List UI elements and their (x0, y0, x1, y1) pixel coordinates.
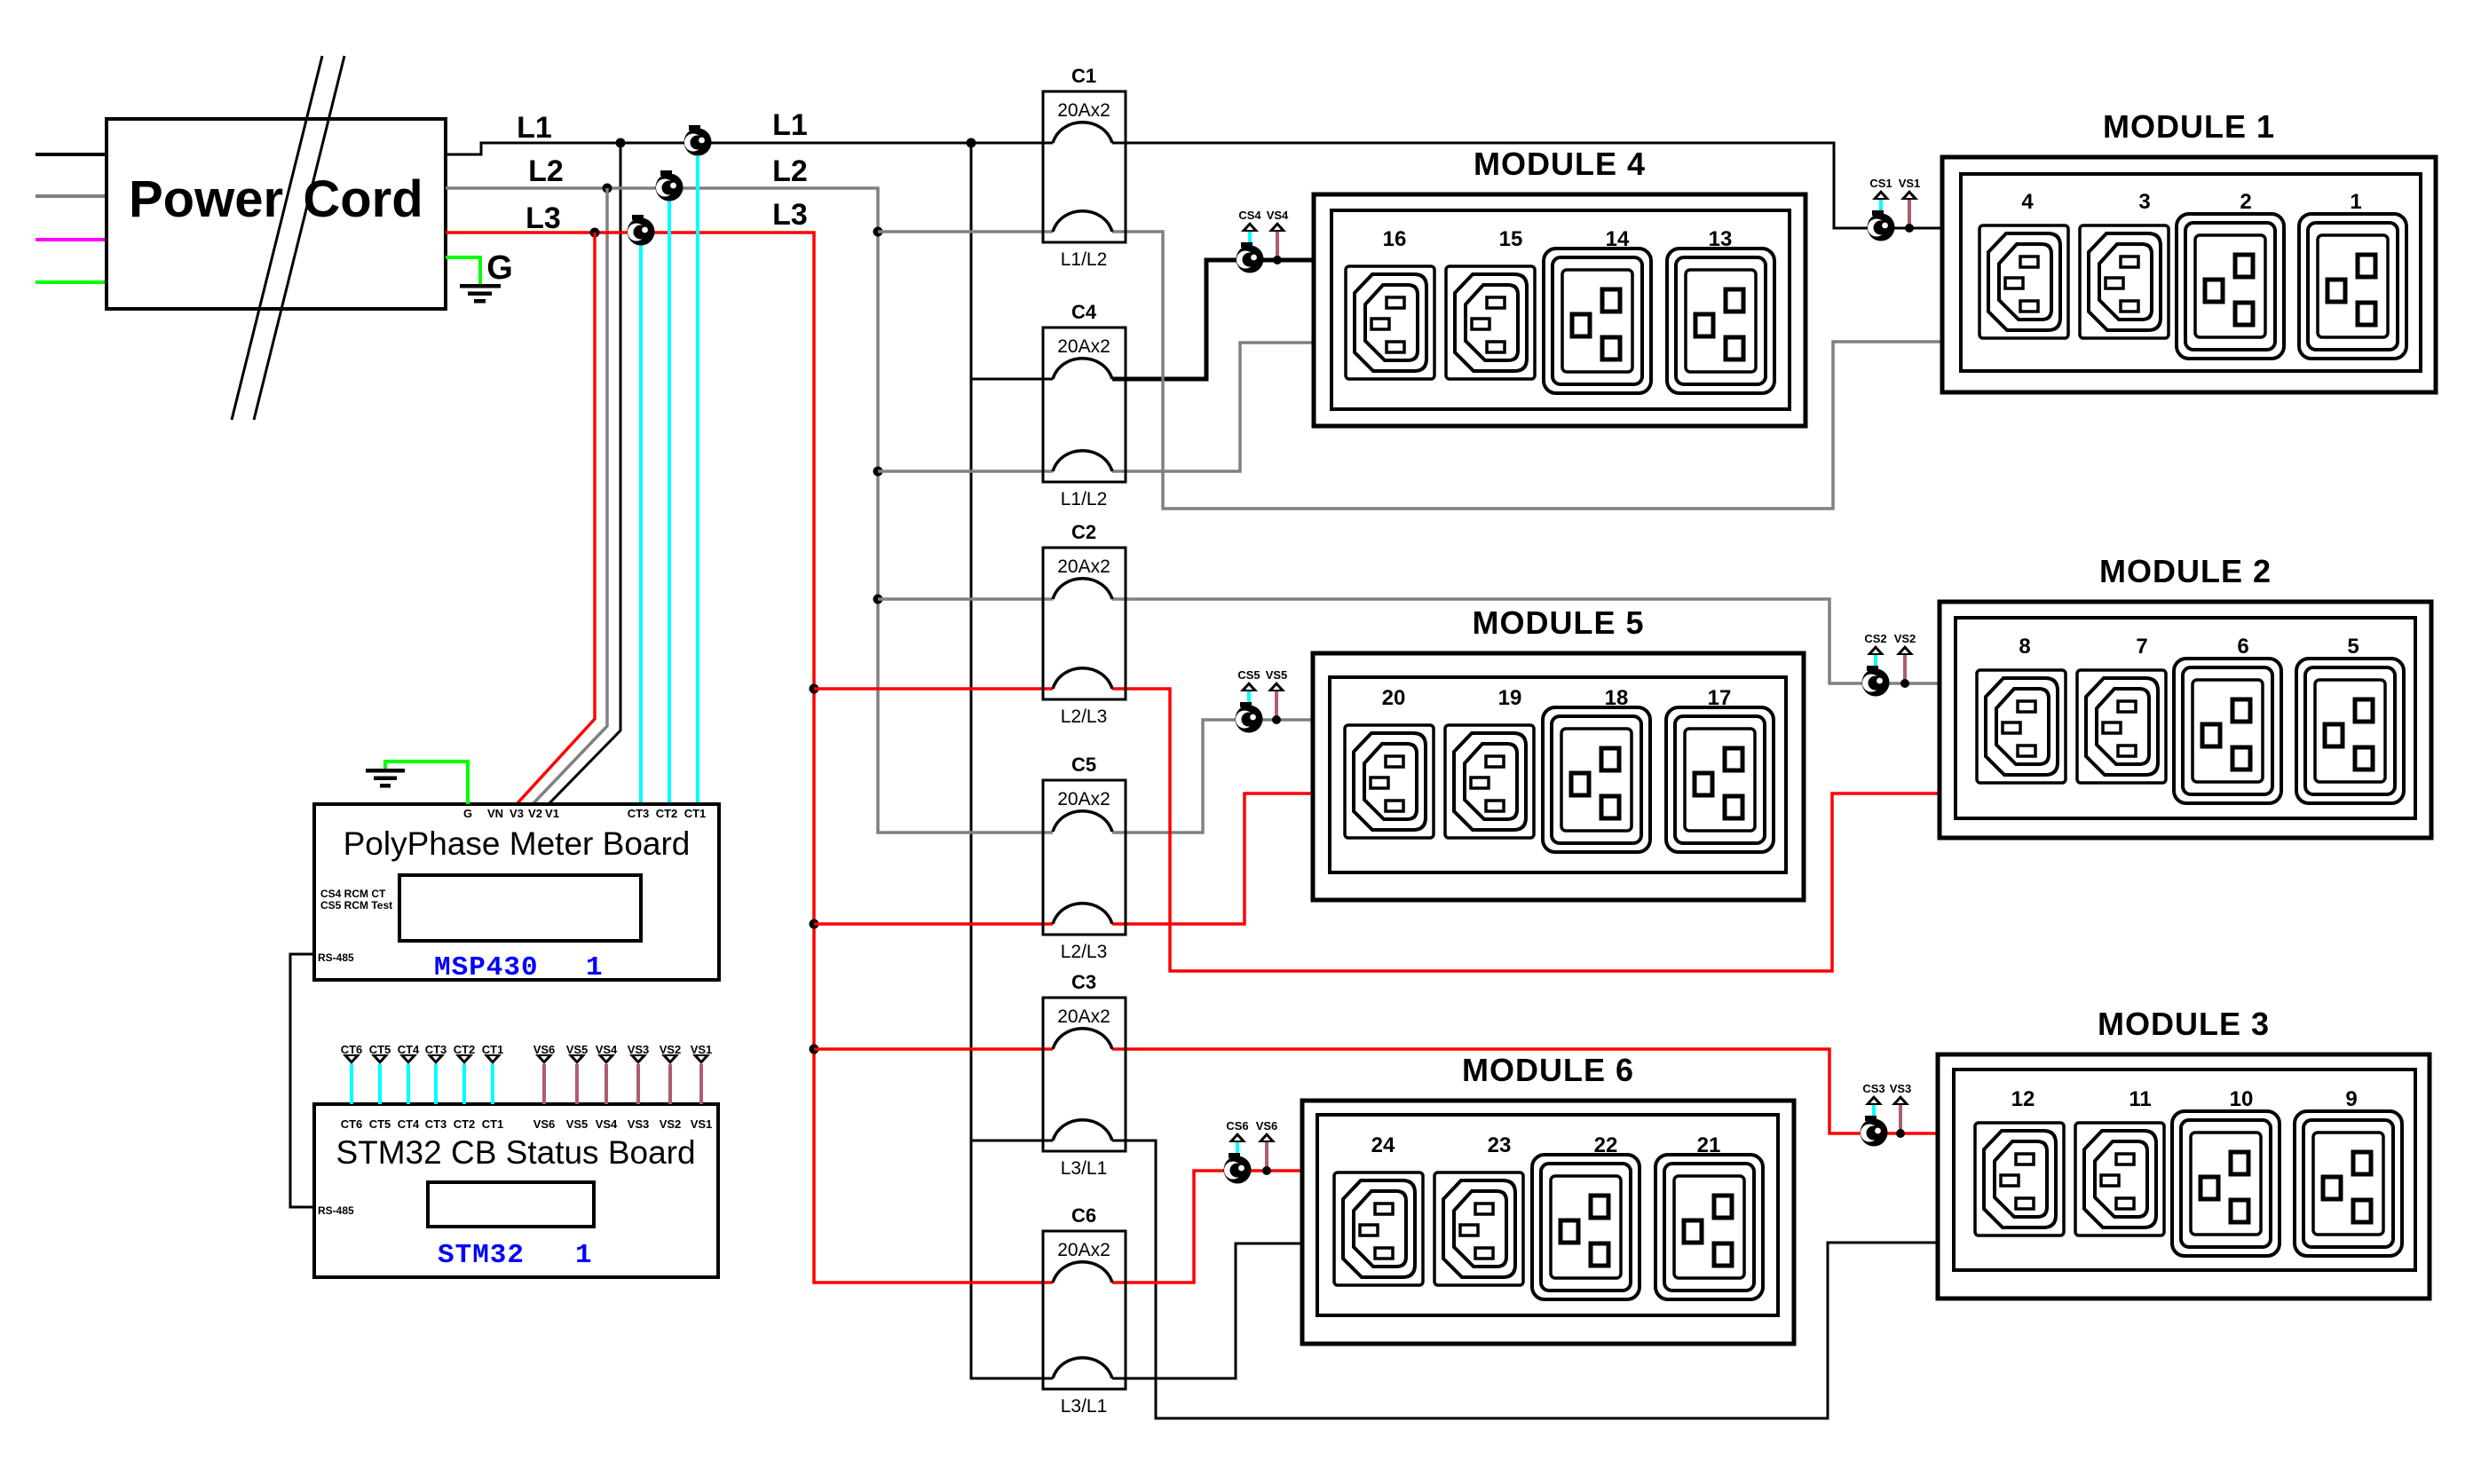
wire L3 from Power Cord down breaker bus to C6 upper (446, 233, 1053, 1283)
outlet 5 (IEC C19) (2296, 659, 2404, 803)
MODULE 4 enclosure (1314, 194, 1806, 426)
svg-text:VS2: VS2 (660, 1117, 682, 1131)
wire service entry ground stub (green) (36, 280, 107, 284)
wire C3 upper output to MODULE 3 feed (1112, 1049, 1938, 1133)
svg-text:C3: C3 (1071, 971, 1096, 993)
wire L1 from Power Cord to breaker C1 (446, 143, 1053, 154)
wire service entry L3 stub (magenta) (36, 238, 107, 241)
wire C6 upper output to MODULE 6 feed (1112, 1171, 1302, 1283)
current sensor CS2 (CT clamp + flag) (1862, 645, 1890, 697)
svg-text:10: 10 (2230, 1087, 2254, 1111)
STM32 display window (428, 1182, 594, 1227)
svg-text:L3/L1: L3/L1 (1061, 1396, 1108, 1417)
svg-text:21: 21 (1697, 1133, 1721, 1157)
voltage sense tap VS4 (1268, 222, 1286, 264)
svg-text:CT4: CT4 (398, 1117, 420, 1131)
svg-text:4: 4 (2021, 190, 2034, 214)
svg-text:L2: L2 (772, 154, 808, 188)
Power Cord box (107, 119, 446, 309)
outlet 21 (IEC C19) (1655, 1155, 1763, 1299)
svg-text:9: 9 (2345, 1087, 2357, 1111)
svg-text:CS5: CS5 (1237, 668, 1260, 682)
wire L2 sense to meter V2 (533, 188, 607, 804)
circuit breaker C4 (L1/L2 2-pole) (1043, 328, 1126, 482)
circuit breaker C6 (L3/L1 2-pole) (1043, 1231, 1126, 1389)
svg-text:17: 17 (1708, 686, 1732, 710)
svg-text:8: 8 (2019, 635, 2030, 659)
svg-text:Cord: Cord (303, 170, 423, 228)
node L2 junction to C2 upper pole (873, 595, 883, 604)
connector arrow CT4 (to STM32) (399, 1054, 417, 1104)
node L1 junction to breaker bus (967, 138, 976, 148)
svg-text:CT2: CT2 (454, 1043, 476, 1056)
ground symbol (meter board) (366, 769, 405, 788)
voltage sense tap VS5 (1268, 682, 1285, 724)
svg-text:CT1: CT1 (482, 1043, 504, 1056)
outlet 16 (IEC C13) (1346, 266, 1434, 379)
node L2 junction to C4 lower pole (873, 467, 883, 477)
wire service entry L1 stub (black) (36, 153, 107, 156)
svg-text:Power: Power (129, 170, 283, 228)
wire C3 lower output to MODULE 3 return (1112, 1141, 1938, 1418)
svg-text:VS3: VS3 (628, 1043, 650, 1056)
svg-text:VS2: VS2 (660, 1043, 682, 1056)
svg-text:CT3: CT3 (628, 807, 650, 820)
svg-text:C1: C1 (1071, 65, 1096, 87)
svg-text:CS1: CS1 (1869, 177, 1892, 190)
svg-text:VS4: VS4 (1267, 209, 1289, 222)
svg-text:MODULE 6: MODULE 6 (1462, 1052, 1634, 1088)
svg-text:PolyPhase Meter Board: PolyPhase Meter Board (344, 825, 691, 862)
svg-text:VS1: VS1 (691, 1117, 713, 1131)
circuit breaker C5 (L2/L3 2-pole) (1043, 780, 1126, 935)
svg-text:MODULE 5: MODULE 5 (1472, 604, 1644, 641)
svg-text:20Ax2: 20Ax2 (1057, 1240, 1110, 1260)
svg-text:VS2: VS2 (1894, 632, 1916, 645)
svg-text:CS4: CS4 (1238, 209, 1261, 222)
wire L2 to C4 lower pole (878, 470, 1053, 473)
svg-text:VS5: VS5 (566, 1117, 589, 1131)
connector arrow VS6 (to STM32) (535, 1054, 553, 1104)
svg-text:V1: V1 (545, 807, 559, 820)
outlet 23 (IEC C13) (1434, 1172, 1523, 1285)
current sensor CS4 (CT clamp + flag) (1237, 222, 1264, 273)
node L1 junction to meter V1 (616, 138, 626, 148)
connector arrow VS1 (to STM32) (692, 1054, 710, 1104)
svg-text:MODULE 2: MODULE 2 (2099, 553, 2272, 589)
svg-text:L3: L3 (772, 198, 808, 232)
connector arrow CT3 (to STM32) (427, 1054, 445, 1104)
svg-text:1: 1 (575, 1240, 592, 1271)
svg-text:RS-485: RS-485 (318, 1204, 354, 1217)
svg-text:G: G (486, 249, 513, 287)
svg-text:L1: L1 (772, 108, 808, 142)
current sensor CS3 (CT clamp + flag) (1861, 1095, 1888, 1147)
svg-text:G: G (463, 807, 472, 820)
connector arrow CT2 (to STM32) (455, 1054, 473, 1104)
svg-text:VN: VN (487, 807, 503, 820)
svg-text:VS6: VS6 (533, 1117, 556, 1131)
current sensor CS1 (CT clamp + flag) (1868, 190, 1895, 241)
wire L2 to C2 upper pole (878, 597, 1053, 601)
svg-text:MODULE 4: MODULE 4 (1474, 146, 1646, 182)
svg-text:23: 23 (1488, 1133, 1512, 1157)
svg-text:L2/L3: L2/L3 (1061, 942, 1108, 962)
svg-text:RS-485: RS-485 (318, 951, 354, 964)
circuit breaker C3 (L3/L1 2-pole) (1043, 998, 1126, 1151)
svg-text:CT2: CT2 (656, 807, 678, 820)
outlet 19 (IEC C13) (1445, 725, 1534, 838)
connector arrow CT1 (to STM32) (484, 1054, 502, 1104)
outlet 7 (IEC C13) (2077, 670, 2166, 783)
svg-text:C4: C4 (1071, 301, 1097, 323)
svg-text:VS3: VS3 (1890, 1082, 1912, 1095)
STM32 CB Status Board (314, 1104, 718, 1277)
wire RS-485 link between boards (290, 954, 314, 1207)
outlet 4 (IEC C13) (1979, 225, 2068, 338)
svg-text:VS1: VS1 (1899, 177, 1921, 190)
svg-text:VS5: VS5 (1266, 668, 1288, 682)
MODULE 3 enclosure (1938, 1054, 2430, 1298)
svg-text:3: 3 (2138, 190, 2150, 214)
svg-text:1: 1 (586, 952, 603, 983)
MODULE 2 enclosure (1940, 602, 2431, 838)
wire C5 upper output to MODULE 5 feed (1112, 720, 1313, 833)
svg-text:CT4: CT4 (398, 1043, 420, 1056)
wire L1 from C1 to MODULE 1 feed (1112, 143, 1942, 228)
MODULE 1 enclosure (1942, 157, 2436, 392)
connector arrow VS5 (to STM32) (568, 1054, 586, 1104)
MODULE 6 enclosure (1302, 1101, 1794, 1344)
svg-text:CT2: CT2 (454, 1117, 476, 1131)
outlet 11 (IEC C13) (2075, 1123, 2164, 1235)
current sensor CS6 (CT clamp + flag) (1224, 1133, 1252, 1184)
wire L2 to C1 lower pole (878, 230, 1053, 233)
circuit breaker C1 (L1/L2 2-pole) (1043, 91, 1126, 242)
svg-text:24: 24 (1371, 1133, 1395, 1157)
wire L3 to C3 upper pole (814, 1047, 1053, 1051)
wire L1 breaker bus (feeds C4, C3, C6) (971, 143, 1053, 1378)
svg-text:19: 19 (1498, 686, 1522, 710)
wire L3 to C2 lower pole (814, 687, 1053, 691)
voltage sense tap VS3 (1892, 1095, 1909, 1138)
outlet 2 (IEC C19) (2177, 214, 2284, 359)
PolyPhase Meter Board (314, 804, 719, 980)
svg-text:L2: L2 (528, 154, 564, 188)
svg-text:VS6: VS6 (1256, 1119, 1278, 1133)
svg-text:11: 11 (2129, 1087, 2151, 1111)
svg-text:STM32 CB Status Board: STM32 CB Status Board (336, 1134, 695, 1171)
svg-text:CT6: CT6 (341, 1117, 363, 1131)
svg-text:C6: C6 (1071, 1204, 1096, 1227)
wire C4 lower output to MODULE 4 return (1112, 343, 1314, 471)
voltage sense tap VS1 (1900, 190, 1918, 233)
MODULE 5 enclosure (1313, 653, 1804, 900)
svg-text:L1/L2: L1/L2 (1061, 489, 1108, 509)
connector arrow VS3 (to STM32) (629, 1054, 647, 1104)
svg-text:CS6: CS6 (1226, 1119, 1248, 1133)
CT clamp CT3 on L3 (628, 215, 655, 246)
svg-text:CT3: CT3 (425, 1043, 447, 1056)
svg-text:20Ax2: 20Ax2 (1057, 1006, 1110, 1027)
svg-text:CT5: CT5 (369, 1043, 391, 1056)
svg-text:CS2: CS2 (1864, 632, 1886, 645)
svg-text:VS3: VS3 (628, 1117, 650, 1131)
outlet 18 (IEC C19) (1543, 707, 1650, 852)
connector arrow CT5 (to STM32) (371, 1054, 389, 1104)
svg-text:MSP430: MSP430 (434, 952, 539, 983)
wire L3 sense to meter V3 (517, 233, 595, 804)
CT clamp CT2 on L2 (656, 170, 683, 201)
svg-text:CT5: CT5 (369, 1117, 391, 1131)
voltage sense tap VS6 (1258, 1133, 1276, 1175)
wire L2 from Power Cord down breaker bus to C5 (446, 188, 1053, 833)
wire C4 output to MODULE 4 (thick) (1112, 260, 1314, 379)
svg-text:22: 22 (1594, 1133, 1618, 1157)
outlet 24 (IEC C13) (1334, 1172, 1423, 1285)
node L2 junction to C1 lower pole (873, 227, 883, 237)
node L3 junction to C3 upper pole (810, 1045, 819, 1054)
outlet 6 (IEC C19) (2174, 659, 2281, 803)
svg-text:L1: L1 (517, 111, 552, 145)
svg-text:20: 20 (1382, 686, 1406, 710)
svg-text:20Ax2: 20Ax2 (1057, 336, 1110, 357)
svg-text:2: 2 (2240, 190, 2251, 214)
wire ground green (power cord) (446, 257, 480, 286)
wire C5 lower output to MODULE 5 return (1112, 793, 1313, 924)
svg-text:6: 6 (2237, 635, 2248, 659)
outlet 3 (IEC C13) (2080, 225, 2169, 338)
node L3 junction to C5 lower pole (810, 920, 819, 929)
outlet 15 (IEC C13) (1446, 266, 1535, 379)
meter display window (399, 875, 641, 941)
wire L1 sense to meter V1 (549, 143, 620, 804)
svg-text:VS4: VS4 (596, 1117, 618, 1131)
svg-text:L3: L3 (525, 201, 561, 235)
node L3 junction to C2 lower pole (810, 684, 819, 694)
CT clamp CT1 on L1 (684, 125, 712, 156)
wire C3 lower pole feed (971, 1140, 1053, 1142)
outlet 20 (IEC C13) (1345, 725, 1434, 838)
svg-text:V3: V3 (510, 807, 524, 820)
svg-text:18: 18 (1605, 686, 1629, 710)
svg-text:VS6: VS6 (533, 1043, 556, 1056)
svg-text:V2: V2 (528, 807, 542, 820)
svg-text:C5: C5 (1071, 754, 1096, 776)
svg-text:5: 5 (2347, 635, 2359, 659)
node L2 junction to meter V2 (603, 184, 612, 193)
svg-text:20Ax2: 20Ax2 (1057, 100, 1110, 121)
wire C2 lower output to MODULE 2 return (1112, 689, 1940, 971)
svg-text:STM32: STM32 (438, 1240, 525, 1271)
svg-text:VS4: VS4 (596, 1043, 618, 1056)
connector arrow VS4 (to STM32) (597, 1054, 615, 1104)
outlet 22 (IEC C19) (1532, 1155, 1640, 1299)
outlet 13 (IEC C19) (1667, 249, 1774, 393)
svg-text:CT3: CT3 (425, 1117, 447, 1131)
connector arrow VS2 (to STM32) (661, 1054, 679, 1104)
svg-text:MODULE 1: MODULE 1 (2103, 108, 2275, 145)
svg-text:CT1: CT1 (482, 1117, 504, 1131)
svg-text:L2/L3: L2/L3 (1061, 706, 1108, 727)
outlet 14 (IEC C19) (1544, 249, 1651, 393)
outlet 8 (IEC C13) (1977, 670, 2066, 783)
svg-text:20Ax2: 20Ax2 (1057, 789, 1110, 809)
wire CT1 sense (cyan) to meter (696, 156, 699, 804)
wire CT3 sense (cyan) to meter (639, 245, 643, 804)
wire C4 upper pole feed (971, 378, 1053, 381)
outlet 10 (IEC C19) (2172, 1111, 2280, 1256)
svg-text:MODULE 3: MODULE 3 (2098, 1006, 2270, 1042)
wire C2 upper output to MODULE 2 feed (1112, 599, 1940, 683)
circuit breaker C2 (L2/L3 2-pole) (1043, 548, 1126, 699)
svg-text:CS4 RCM CT: CS4 RCM CT (320, 888, 386, 900)
current sensor CS5 (CT clamp + flag) (1236, 682, 1263, 733)
svg-text:7: 7 (2136, 635, 2147, 659)
wire CT2 sense (cyan) to meter (668, 201, 671, 804)
wire service entry L2 stub (gray) (36, 194, 107, 198)
outlet 1 (IEC C19) (2299, 214, 2406, 359)
svg-text:15: 15 (1499, 227, 1523, 251)
svg-text:L3/L1: L3/L1 (1061, 1158, 1108, 1179)
ground symbol (power cord) (460, 284, 501, 304)
svg-text:CS3: CS3 (1862, 1082, 1885, 1095)
outlet 12 (IEC C13) (1975, 1123, 2064, 1235)
svg-text:20Ax2: 20Ax2 (1057, 556, 1110, 577)
svg-text:14: 14 (1606, 227, 1630, 251)
svg-text:CT1: CT1 (684, 807, 707, 820)
wire C6 lower output to MODULE 6 return (1112, 1243, 1302, 1378)
node L3 junction to meter V3 (590, 228, 600, 238)
svg-text:13: 13 (1709, 227, 1733, 251)
cable break slash lines (232, 56, 322, 420)
svg-text:CT6: CT6 (341, 1043, 363, 1056)
outlet 17 (IEC C19) (1666, 707, 1774, 852)
svg-text:VS5: VS5 (566, 1043, 589, 1056)
svg-text:CS5 RCM Test: CS5 RCM Test (320, 899, 392, 912)
voltage sense tap VS2 (1896, 645, 1914, 688)
svg-text:1: 1 (2350, 190, 2361, 214)
svg-text:16: 16 (1383, 227, 1407, 251)
svg-text:12: 12 (2011, 1087, 2035, 1111)
svg-text:VS1: VS1 (691, 1043, 713, 1056)
svg-text:C2: C2 (1071, 521, 1096, 543)
outlet 9 (IEC C19) (2295, 1111, 2402, 1256)
wire ground green (meter board) (385, 762, 468, 804)
wire C1 lower output to MODULE 1 return (1112, 232, 1942, 509)
wire L3 to C5 lower pole (814, 922, 1053, 926)
svg-text:L1/L2: L1/L2 (1061, 249, 1108, 270)
connector arrow CT6 (to STM32) (343, 1054, 360, 1104)
